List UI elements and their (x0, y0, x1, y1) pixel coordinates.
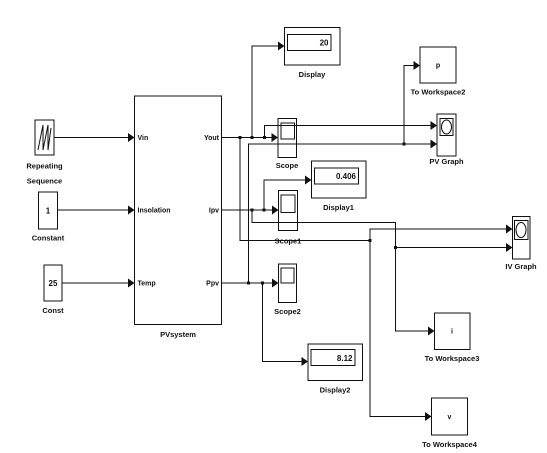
arrowhead into PV Graph top (431, 121, 438, 130)
display block Display2 value 8.12 (308, 344, 363, 395)
svg-text:8.12: 8.12 (337, 354, 353, 363)
scope block Scope2 (274, 264, 301, 316)
wire Yout branch to PV Graph top input (265, 126, 437, 138)
arrowhead into Insolation (128, 206, 135, 215)
wire Ipv branch up to Display1 (264, 180, 311, 210)
svg-text:Display1: Display1 (323, 203, 354, 212)
svg-text:Scope: Scope (276, 161, 299, 170)
constant block Constant value 1 (32, 192, 65, 243)
display block Display1 value 0.406 (312, 161, 367, 212)
wire Yout to Scope (222, 137, 278, 139)
arrowhead into IV Graph bottom (506, 243, 513, 252)
svg-text:Display2: Display2 (320, 386, 351, 395)
arrowhead into Vin (128, 133, 135, 142)
svg-text:PVsystem: PVsystem (160, 330, 196, 339)
svg-text:Display: Display (299, 70, 327, 79)
source block Repeating Sequence (26, 120, 63, 186)
svg-text:PV Graph: PV Graph (429, 157, 464, 166)
wire Ipv to Scope1 (222, 209, 278, 211)
svg-text:Repeating: Repeating (26, 162, 63, 171)
junction dot Ipv-down (251, 209, 254, 212)
arrowhead into Scope2 (272, 279, 279, 288)
wire Constant to Insolation (58, 209, 134, 211)
wire Ppv branch down to Display2 (263, 283, 308, 362)
svg-text:v: v (448, 414, 452, 421)
wire Repeating Sequence to Vin (55, 137, 134, 139)
svg-text:Scope2: Scope2 (274, 307, 301, 316)
arrowhead into To Workspace2 (414, 61, 421, 70)
xy graph block IV Graph (505, 217, 537, 272)
wire node V down to To Workspace4 (370, 241, 431, 417)
junction dot Yout-PVGraph (263, 136, 266, 139)
junction dot Yout-Display (251, 136, 254, 139)
wire Yout branch down to node V (240, 138, 370, 241)
arrowhead into Temp (128, 279, 135, 288)
svg-text:Sequence: Sequence (27, 177, 62, 186)
junction dot Ipv-Display1 (263, 209, 266, 212)
arrowhead into Display2 (302, 357, 309, 366)
arrowhead into Display (278, 42, 285, 51)
arrowhead into IV Graph top (506, 225, 513, 234)
svg-text:1: 1 (46, 207, 51, 216)
svg-text:0.406: 0.406 (336, 172, 357, 181)
svg-text:Ipv: Ipv (209, 208, 219, 215)
sink block To Workspace2 variable p (411, 47, 466, 97)
xy graph block PV Graph (429, 114, 464, 166)
arrowhead into To Workspace4 (425, 412, 432, 421)
junction dot node V (369, 239, 372, 242)
wire Ppv to Scope2 (222, 282, 278, 284)
subsystem block PVsystem (135, 96, 222, 339)
arrowhead into PV Graph bottom (431, 140, 438, 149)
wire node P up to To Workspace2 (404, 66, 419, 145)
junction dot Ppv-Display2 (261, 282, 264, 285)
scope block Scope1 (275, 191, 302, 246)
svg-text:Vin: Vin (138, 135, 149, 142)
sink block To Workspace4 variable v (422, 398, 478, 449)
wire node V up to IV Graph top input (370, 229, 512, 241)
arrowhead into Scope1 (272, 206, 279, 215)
constant block Const value 25 (42, 265, 64, 315)
svg-text:25: 25 (49, 279, 58, 288)
sink block To Workspace3 variable i (425, 313, 480, 363)
svg-text:Const: Const (42, 306, 64, 315)
svg-text:Ppv: Ppv (206, 281, 219, 288)
svg-text:To Workspace3: To Workspace3 (425, 354, 480, 363)
svg-text:IV Graph: IV Graph (505, 262, 537, 271)
wire Ppv branch up to PV Graph bottom input (249, 144, 437, 283)
svg-text:Constant: Constant (32, 234, 65, 243)
scope block Scope (276, 119, 299, 171)
wire Ipv branch down under Scope1 to node I (252, 210, 434, 331)
svg-text:i: i (451, 329, 453, 336)
wire node I to IV Graph bottom input (396, 247, 512, 249)
svg-text:Insolation: Insolation (138, 208, 171, 215)
junction dot node I (394, 246, 397, 249)
junction dot Ppv-up (247, 282, 250, 285)
arrowhead into To Workspace3 (428, 327, 435, 336)
display block Display value 20 (285, 28, 341, 80)
svg-text:p: p (436, 63, 440, 70)
svg-text:Temp: Temp (138, 281, 156, 288)
svg-text:Yout: Yout (204, 135, 220, 142)
arrowhead into Scope (272, 133, 279, 142)
svg-text:To Workspace4: To Workspace4 (422, 440, 478, 449)
svg-text:To Workspace2: To Workspace2 (411, 88, 466, 97)
svg-text:20: 20 (320, 39, 329, 48)
wire Const to Temp (62, 282, 133, 284)
wire Yout branch up to Display (252, 46, 284, 138)
junction dot Yout-down (239, 136, 242, 139)
arrowhead into Display1 (305, 176, 312, 185)
junction dot node P (403, 143, 406, 146)
